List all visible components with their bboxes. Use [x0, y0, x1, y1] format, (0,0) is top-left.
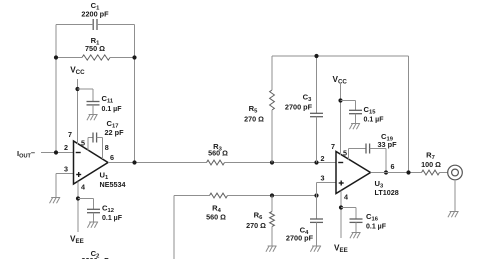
- node: lower path junction (C4): [314, 193, 318, 197]
- wire: R3 to U3 pin 2: [225, 162, 337, 164]
- svg-text:4: 4: [344, 193, 348, 202]
- svg-text:LT1028: LT1028: [375, 188, 399, 197]
- ground (connector): [448, 212, 459, 218]
- resistor R4 560 ohm: [174, 193, 317, 221]
- svg-text:0.1 µF: 0.1 µF: [366, 224, 387, 231]
- node: VCC decoupling junction (stage 2): [338, 98, 342, 102]
- svg-text:7: 7: [331, 142, 335, 151]
- resistor R3 560 ohm: [207, 142, 229, 165]
- ground (C12): [87, 222, 98, 228]
- capacitor C15 0.1 uF: [349, 101, 384, 124]
- svg-text:5: 5: [343, 149, 347, 158]
- node: VCC decoupling junction: [75, 87, 79, 91]
- svg-text:2700 pF: 2700 pF: [286, 234, 314, 243]
- svg-text:0.1 µF: 0.1 µF: [364, 117, 385, 124]
- node: top rail / C3 junction: [314, 54, 318, 58]
- capacitor C2 (partially cut at bottom): [81, 249, 109, 259]
- VCC supply (stage 1): [70, 66, 85, 77]
- svg-text:2: 2: [321, 154, 325, 163]
- svg-text:560 Ω: 560 Ω: [208, 149, 228, 158]
- svg-text:2200 pF: 2200 pF: [81, 10, 109, 19]
- wire: branch to C11: [78, 88, 94, 90]
- node IOUT input label: [17, 148, 35, 160]
- svg-text:3: 3: [321, 174, 325, 183]
- svg-text:22 pF: 22 pF: [104, 128, 124, 137]
- svg-text:0.1 µF: 0.1 µF: [102, 215, 123, 222]
- svg-text:NE5534: NE5534: [100, 180, 126, 189]
- wire: feedback right vertical: [134, 25, 136, 163]
- svg-text:6: 6: [391, 162, 395, 171]
- wire: pin 4 to VEE: [77, 182, 79, 233]
- wire: stage-2 feedback top rail: [272, 55, 409, 57]
- wire: pin 3 to ground: [56, 174, 74, 198]
- svg-text:6: 6: [110, 153, 114, 162]
- svg-text:270 Ω: 270 Ω: [244, 115, 264, 124]
- op-amp U3 LT1028: [336, 152, 371, 194]
- capacitor C12 0.1 uF: [87, 199, 123, 223]
- node: stage-1 output/feedback junction: [132, 160, 136, 164]
- wire: branch to C12: [78, 198, 94, 200]
- wire: C1 top rail: [56, 24, 135, 26]
- output connector J1: [448, 165, 463, 180]
- node: R1 right junction: [132, 55, 136, 59]
- wire: stage-1 output row: [108, 162, 207, 164]
- capacitor C17 22 pF (compensation pins 5-8): [88, 119, 124, 159]
- svg-text:2700 pF: 2700 pF: [285, 103, 313, 112]
- wire: branch to C15: [341, 100, 356, 102]
- wire: U3 output row: [371, 172, 422, 174]
- capacitor C19 33 pF (compensation): [349, 132, 398, 173]
- capacitor C1 2200 pF (stage-1 feedback cap): [81, 1, 109, 30]
- svg-text:560 Ω: 560 Ω: [206, 213, 226, 222]
- wire: VCC to pin 7: [77, 79, 79, 145]
- ground (U1 pin 3): [50, 198, 61, 204]
- svg-text:100 Ω: 100 Ω: [421, 160, 441, 169]
- ground (C4): [310, 246, 321, 252]
- svg-text:750 Ω: 750 Ω: [85, 44, 105, 53]
- wire: connector shield to ground: [454, 180, 456, 212]
- node: U3 inverting input junction (C3): [314, 160, 318, 164]
- node: input junction: [54, 150, 58, 154]
- node: U3 inverting input junction (R5): [270, 160, 274, 164]
- resistor R7 100 ohm: [421, 151, 447, 175]
- VCC supply (stage 2): [333, 75, 348, 86]
- resistor R6 270 ohm: [246, 196, 274, 247]
- wire: feedback left vertical: [55, 25, 57, 153]
- wire: branch to C16: [341, 207, 356, 209]
- op-amp U1 NE5534: [74, 141, 109, 184]
- svg-text:270 Ω: 270 Ω: [246, 221, 266, 230]
- svg-text:0.1 µF: 0.1 µF: [102, 106, 123, 113]
- node: VEE decoupling junction: [76, 196, 80, 200]
- wire: pin 4 to VEE: [340, 191, 342, 239]
- ground (R6): [266, 246, 277, 252]
- svg-text:7: 7: [68, 130, 72, 139]
- wire: IOUT to pin 2: [41, 152, 74, 154]
- capacitor C16 0.1 uF: [350, 208, 387, 233]
- wire: U3 pin 3 connection: [317, 183, 337, 196]
- node: output/feedback junction: [406, 170, 410, 174]
- node: C19 to output junction: [384, 170, 388, 174]
- wire: VCC to pin 7: [340, 84, 342, 155]
- capacitor C11 0.1 uF: [87, 89, 123, 115]
- VEE supply (stage 1): [70, 235, 84, 246]
- resistor R5 270 ohm: [244, 56, 274, 163]
- svg-text:33 pF: 33 pF: [377, 140, 397, 149]
- VEE supply (stage 2): [334, 244, 348, 255]
- svg-text:3: 3: [64, 165, 68, 174]
- capacitor C4 2700 pF: [286, 196, 323, 247]
- svg-text:8: 8: [105, 143, 109, 152]
- ground (C11): [87, 115, 98, 121]
- node: lower path junction (R6): [270, 193, 274, 197]
- capacitor C3 2700 pF: [285, 56, 323, 163]
- node: R1 left junction: [54, 55, 58, 59]
- wire: feedback right vertical to output: [408, 56, 410, 173]
- svg-text:2: 2: [64, 143, 68, 152]
- resistor R1 750 ohm (stage-1 feedback): [56, 36, 135, 60]
- node: VEE decoupling junction (stage 2): [339, 205, 343, 209]
- wire: lower path left vertical (to C2, off image): [173, 196, 175, 259]
- ground (C16): [350, 233, 361, 239]
- svg-text:4: 4: [81, 183, 85, 192]
- svg-text:5: 5: [81, 139, 85, 148]
- ground (C15): [349, 124, 360, 130]
